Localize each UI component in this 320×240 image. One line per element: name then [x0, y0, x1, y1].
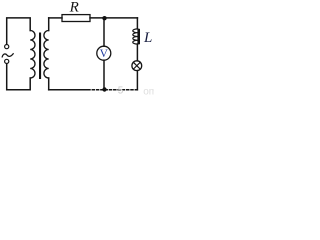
svg-text:V: V: [100, 48, 109, 60]
svg-text:L: L: [143, 30, 152, 46]
svg-text:5: 5: [118, 85, 124, 95]
svg-text:om: om: [143, 86, 154, 95]
svg-text:R: R: [69, 0, 79, 16]
